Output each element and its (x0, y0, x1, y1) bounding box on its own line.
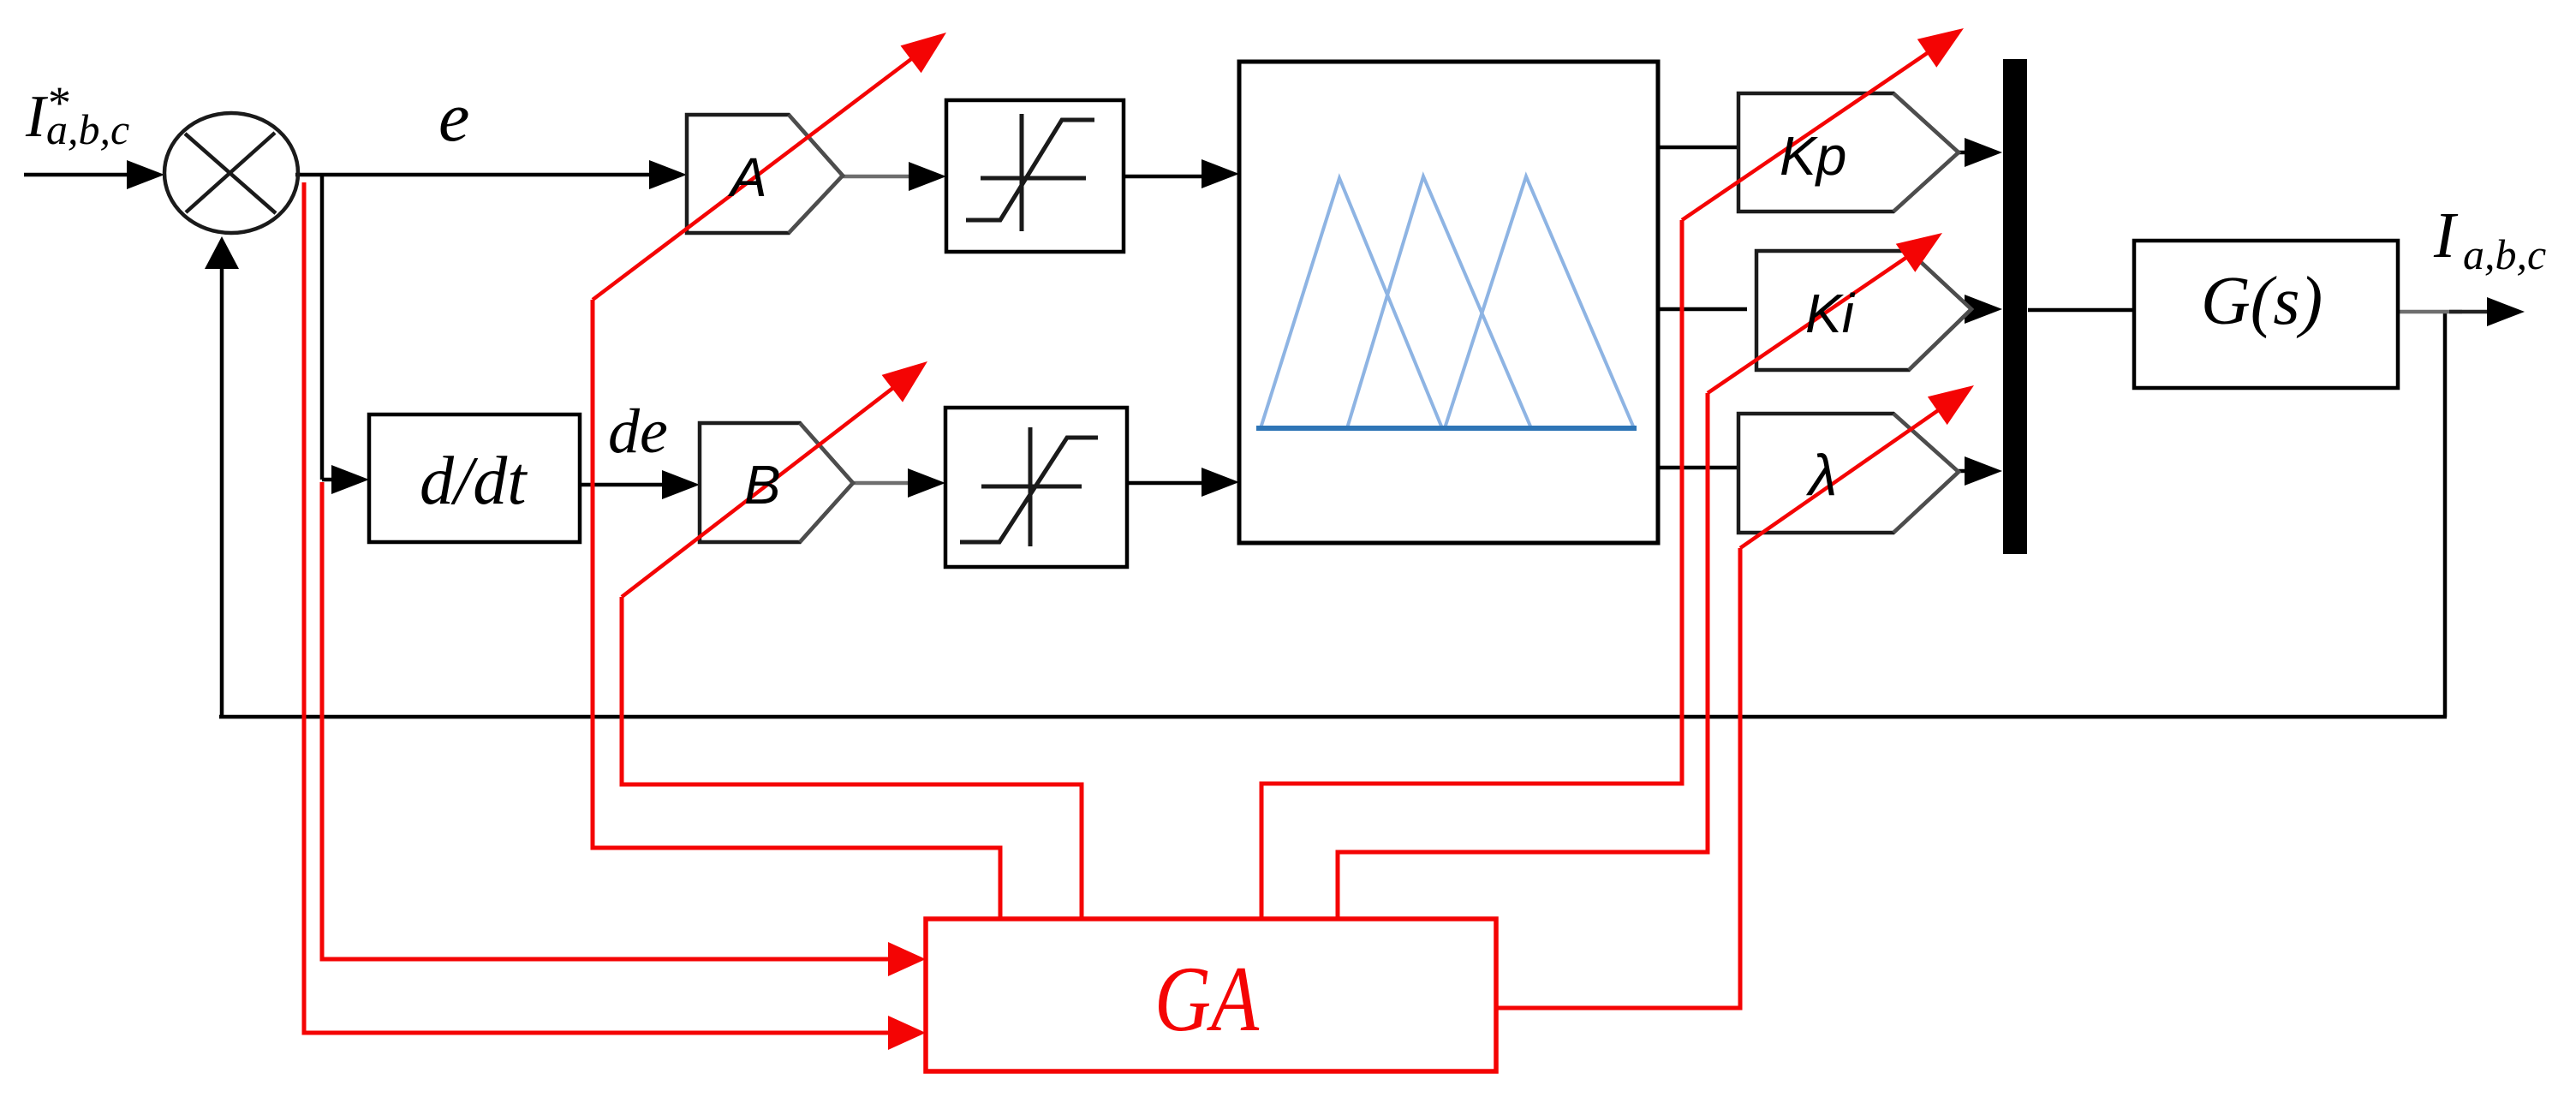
svg-text:B: B (744, 454, 781, 516)
svg-text:de: de (608, 396, 668, 467)
svg-text:GA: GA (1154, 947, 1259, 1051)
svg-text:λ: λ (1805, 443, 1837, 508)
svg-text:I: I (25, 84, 49, 150)
svg-text:A: A (727, 146, 767, 208)
svg-text:I: I (2433, 200, 2459, 271)
svg-text:G(s): G(s) (2201, 264, 2323, 339)
svg-text:d/dt: d/dt (420, 444, 528, 519)
svg-text:a,b,c: a,b,c (2463, 230, 2546, 278)
svg-text:e: e (438, 78, 469, 156)
svg-text:a,b,c: a,b,c (46, 105, 129, 153)
svg-text:Kp: Kp (1780, 125, 1846, 187)
svg-text:Ki: Ki (1805, 283, 1856, 344)
